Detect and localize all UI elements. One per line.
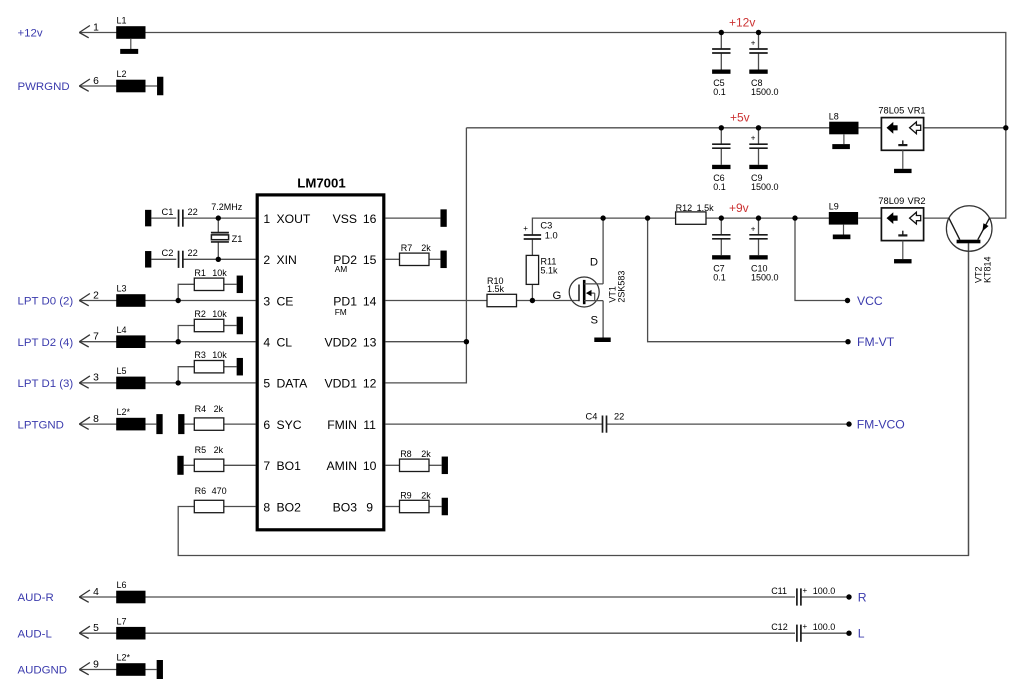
node C7 junction — [719, 215, 724, 220]
wire R7 to bar — [429, 258, 440, 260]
pin number 6 SYC — [263, 418, 270, 432]
capacitor C6 0.1 — [712, 144, 730, 192]
ground bar C5 — [712, 70, 730, 74]
svg-text:DATA: DATA — [277, 377, 309, 391]
ground bar AUDGND — [157, 660, 163, 679]
wire AUDGND — [79, 669, 156, 671]
pin number 10 — [363, 459, 377, 473]
node junction R3 — [176, 380, 181, 385]
svg-text:AUD-R: AUD-R — [18, 592, 54, 604]
svg-text:S: S — [591, 315, 599, 327]
svg-text:R8: R8 — [400, 449, 412, 459]
inductor L1 — [116, 16, 145, 39]
svg-text:78L05: 78L05 — [878, 106, 904, 116]
svg-text:10k: 10k — [212, 350, 227, 360]
resistor R11 5.1k — [526, 255, 558, 284]
svg-text:VCC: VCC — [857, 294, 883, 308]
connector arrow LPT D2 (4) — [79, 335, 90, 347]
svg-text:78L09: 78L09 — [878, 196, 904, 206]
svg-text:C2: C2 — [162, 248, 174, 258]
pin name SYC — [277, 418, 302, 432]
capacitor C2 — [162, 248, 198, 268]
svg-text:AM: AM — [335, 264, 348, 274]
resistor R2 — [194, 309, 227, 332]
pin number 16 — [363, 212, 377, 226]
wire LPTGND lead — [79, 423, 156, 425]
pin name XOUT — [277, 212, 311, 226]
svg-text:7.2MHz: 7.2MHz — [211, 202, 243, 212]
crystal Z1 — [211, 233, 243, 245]
svg-text:VR2: VR2 — [908, 196, 926, 206]
node +12v connector label — [18, 28, 43, 40]
resistor R6 470 — [194, 486, 226, 513]
svg-text:LPTGND: LPTGND — [18, 419, 64, 431]
svg-text:6: 6 — [93, 76, 99, 87]
wire bar to R4 — [184, 423, 194, 425]
svg-text:VDD2: VDD2 — [324, 336, 357, 350]
pin name BO2 — [277, 500, 302, 514]
wire R2 pullup — [178, 326, 194, 342]
pin number 8 for LPTGND — [93, 414, 99, 425]
wire +5v rail — [466, 127, 881, 129]
resistor R1 — [194, 268, 227, 291]
wire drain — [602, 218, 604, 284]
node VDD junction — [464, 339, 469, 344]
pin name VDD2 — [324, 336, 357, 350]
svg-text:L7: L7 — [117, 616, 127, 626]
svg-text:LPT D1 (3): LPT D1 (3) — [18, 378, 74, 390]
svg-text:VR1: VR1 — [908, 106, 926, 116]
op-amp U1 LM7001 box — [257, 176, 384, 530]
pin number 4 for AUD-R — [93, 587, 99, 598]
svg-text:FM: FM — [335, 307, 347, 317]
label FM-VT — [857, 335, 895, 349]
capacitor C10 1500.0 — [749, 224, 778, 282]
svg-text:R12: R12 — [676, 203, 693, 213]
pin name VDD1 — [324, 377, 357, 391]
svg-text:R5: R5 — [195, 445, 207, 455]
ground bar C9 — [749, 165, 767, 169]
pin number 9 for AUDGND — [93, 659, 99, 670]
wire VR1 out — [924, 127, 1006, 129]
capacitor C4 22 — [586, 411, 625, 432]
pin number 3 CE — [263, 294, 270, 308]
svg-text:+: + — [523, 224, 528, 233]
wire FM-VT branch — [648, 218, 848, 342]
wire VR2 to VT2 — [924, 217, 949, 219]
inductor L2* — [116, 407, 145, 430]
wire C11 to R — [801, 596, 849, 598]
svg-text:2k: 2k — [421, 490, 431, 500]
svg-text:10: 10 — [363, 459, 377, 473]
svg-text:+: + — [803, 586, 808, 595]
pin name BO3 — [333, 500, 358, 514]
pin number 3 for LPT D1 (3) — [93, 373, 99, 384]
transistor VT2 KT814 — [946, 206, 992, 283]
connector arrow LPTGND — [79, 417, 90, 429]
svg-text:22: 22 — [188, 207, 198, 217]
svg-text:22: 22 — [614, 411, 624, 421]
capacitor C11 100.0 — [771, 586, 835, 606]
svg-text:6: 6 — [263, 418, 270, 432]
svg-text:3: 3 — [263, 294, 270, 308]
node C8 junction — [756, 30, 761, 35]
node LPT D0 (2) connector label — [18, 296, 74, 308]
node AUD-R connector label — [18, 592, 54, 604]
svg-text:+: + — [751, 224, 756, 233]
connector arrow AUDGND — [79, 663, 90, 675]
svg-text:11: 11 — [363, 418, 376, 432]
resistor R12 1.5k — [676, 203, 715, 224]
ground bar LPTGND a — [156, 414, 162, 434]
svg-text:9: 9 — [366, 500, 373, 514]
ground bar C10 — [749, 255, 767, 259]
wire VSS — [386, 217, 441, 219]
node C5 junction — [719, 30, 724, 35]
svg-text:0.1: 0.1 — [713, 87, 726, 97]
svg-text:5.1k: 5.1k — [541, 266, 559, 276]
svg-text:G: G — [553, 290, 562, 302]
inductor L5 — [116, 366, 145, 389]
svg-text:L: L — [858, 627, 865, 641]
connector arrow LPT D1 (3) — [79, 376, 90, 388]
svg-text:AUD-L: AUD-L — [18, 628, 52, 640]
ground bar R3 — [237, 358, 243, 376]
ground bar VSS — [440, 209, 446, 227]
svg-text:+12v: +12v — [729, 15, 755, 29]
svg-text:1.0: 1.0 — [545, 230, 558, 240]
pin number 7 BO1 — [263, 459, 270, 473]
pin number 2 for LPT D0 (2) — [93, 290, 99, 301]
svg-text:CE: CE — [277, 294, 294, 308]
wire VT2 base — [968, 243, 970, 555]
L8 ground pad — [832, 134, 850, 149]
svg-text:22: 22 — [188, 248, 198, 258]
svg-text:C4: C4 — [586, 411, 598, 421]
wire R6 to pin8 — [224, 506, 256, 508]
label FM — [335, 307, 347, 317]
node LPTGND connector label — [18, 419, 64, 431]
ground bar R5 — [177, 456, 183, 475]
wire FMIN to C4 — [386, 423, 603, 425]
svg-text:+9v: +9v — [729, 201, 749, 215]
ground bar R1 — [237, 276, 243, 294]
node VCC — [845, 298, 850, 303]
resistor R8 2k — [400, 449, 432, 471]
svg-text:5: 5 — [263, 377, 270, 391]
pin name PD1 — [333, 294, 357, 308]
pin number 5 for AUD-L — [93, 623, 99, 634]
capacitor C3 1.0 — [523, 220, 557, 240]
svg-text:14: 14 — [363, 294, 377, 308]
svg-text:C11: C11 — [771, 586, 787, 596]
svg-text:8: 8 — [263, 500, 270, 514]
pin number 15 — [363, 253, 377, 267]
pin name BO1 — [277, 459, 302, 473]
svg-text:L1: L1 — [117, 16, 127, 26]
svg-text:+: + — [803, 622, 808, 631]
connector arrow AUD-L — [79, 626, 90, 638]
ground bar C7 — [712, 255, 730, 259]
capacitor C9 1500.0 — [749, 134, 778, 193]
label +12v rail — [729, 15, 755, 29]
svg-text:5: 5 — [93, 623, 99, 634]
wire R3 to bar — [224, 366, 237, 368]
label +5v — [730, 111, 750, 125]
svg-text:L2: L2 — [117, 69, 127, 79]
svg-text:7: 7 — [93, 332, 99, 343]
wire C5 — [720, 33, 722, 50]
node FM-VT junction — [645, 215, 650, 220]
wire C12 to L — [801, 632, 849, 634]
node AUDGND connector label — [18, 665, 68, 677]
label D — [590, 257, 598, 269]
svg-text:VDD1: VDD1 — [324, 377, 357, 391]
inductor L7 — [116, 616, 145, 639]
svg-text:R: R — [858, 590, 867, 604]
svg-text:+: + — [751, 134, 756, 143]
node R — [846, 594, 851, 599]
svg-text:2k: 2k — [421, 449, 431, 459]
inductor L4 — [116, 325, 145, 348]
connector arrow PWRGND — [79, 79, 90, 91]
connector arrow +12v — [79, 26, 90, 38]
node FM-VCO — [846, 421, 851, 426]
pin number 14 — [363, 294, 377, 308]
svg-text:0.1: 0.1 — [713, 273, 726, 283]
ground bar C1 — [145, 210, 151, 227]
wire BO2 return — [178, 243, 968, 555]
wire C3 to rail — [532, 218, 647, 235]
inductor L8 — [829, 111, 859, 134]
svg-text:2SK583: 2SK583 — [616, 271, 626, 303]
svg-text:1.5k: 1.5k — [697, 203, 715, 213]
svg-text:LM7001: LM7001 — [297, 176, 345, 191]
node junction R1 — [176, 298, 181, 303]
svg-text:2k: 2k — [214, 404, 224, 414]
ground VT1 source — [594, 338, 610, 343]
wire C8 gnd — [758, 53, 760, 70]
wire C5 gnd — [720, 53, 722, 70]
pin number 7 for LPT D2 (4) — [93, 332, 99, 343]
wire R5 to pin7 — [224, 464, 256, 466]
svg-text:L2*: L2* — [117, 653, 131, 663]
node L — [846, 631, 851, 636]
svg-text:16: 16 — [363, 212, 377, 226]
ground bar R7 — [440, 251, 446, 268]
wire VDD1 — [386, 128, 467, 383]
transistor VT1 2SK583 — [569, 271, 626, 307]
svg-text:470: 470 — [212, 486, 227, 496]
label R — [858, 590, 867, 604]
svg-text:CL: CL — [277, 336, 293, 350]
svg-text:BO3: BO3 — [333, 500, 358, 514]
node XIN junction — [216, 257, 221, 262]
wire C1 to pin1 — [183, 217, 256, 219]
svg-text:L2*: L2* — [117, 407, 131, 417]
node LPT D1 (3) connector label — [18, 378, 74, 390]
wire +12v rail — [79, 33, 1006, 219]
wire C9 — [758, 128, 760, 145]
svg-text:2k: 2k — [421, 243, 431, 253]
pin number 2 XIN — [263, 253, 270, 267]
inductor L2* — [116, 653, 145, 676]
svg-text:L8: L8 — [829, 111, 839, 121]
inductor L6 — [116, 580, 145, 603]
svg-text:C1: C1 — [162, 207, 174, 217]
wire R1 to bar — [224, 283, 237, 285]
pin number 4 CL — [263, 336, 270, 350]
svg-text:L3: L3 — [117, 284, 127, 294]
label 7.2MHz — [211, 202, 243, 212]
svg-text:4: 4 — [263, 336, 270, 350]
resistor R9 2k — [400, 490, 432, 512]
wire crystal top — [217, 218, 219, 232]
svg-text:2: 2 — [263, 253, 270, 267]
wire C2 left — [151, 258, 176, 260]
pin number 6 for PWRGND — [93, 76, 99, 87]
svg-text:15: 15 — [363, 253, 377, 267]
wire C6 — [720, 128, 722, 145]
wire R11 to C3 — [531, 239, 533, 255]
wire R9 to bar — [429, 506, 442, 508]
capacitor C1 — [162, 207, 198, 227]
wire PWRGND — [79, 85, 157, 87]
ground bar R2 — [237, 317, 243, 335]
svg-text:KT814: KT814 — [983, 256, 993, 283]
wire R4 to pin6 — [224, 423, 256, 425]
wire C2 to pin2 — [183, 258, 256, 260]
svg-text:D: D — [590, 257, 598, 269]
svg-text:BO1: BO1 — [277, 459, 302, 473]
pin number 11 — [363, 418, 376, 432]
wire C7 — [720, 218, 722, 235]
svg-text:BO2: BO2 — [277, 500, 302, 514]
svg-text:1: 1 — [263, 212, 270, 226]
ground bar R9 — [442, 498, 448, 516]
wire VDD2 — [386, 341, 467, 343]
svg-text:SYC: SYC — [277, 418, 302, 432]
svg-text:R7: R7 — [401, 243, 413, 253]
wire R2 to bar — [224, 325, 237, 327]
svg-text:AUDGND: AUDGND — [18, 665, 68, 677]
svg-text:8: 8 — [93, 414, 99, 425]
pin name XIN — [277, 253, 297, 267]
pin name PD2 — [333, 253, 357, 267]
node FM-VT — [845, 339, 850, 344]
node junction R2 — [176, 339, 181, 344]
svg-text:10k: 10k — [212, 309, 227, 319]
wire C1 left — [151, 217, 176, 219]
svg-text:R2: R2 — [194, 309, 206, 319]
wire C6 gnd — [720, 148, 722, 165]
pin name FMIN — [327, 418, 357, 432]
svg-text:LPT D0 (2): LPT D0 (2) — [18, 296, 74, 308]
node +12v/VR1 junction — [1003, 125, 1008, 130]
node XOUT junction — [216, 215, 221, 220]
pin name AMIN — [327, 459, 357, 473]
svg-text:FMIN: FMIN — [327, 418, 357, 432]
wire BO3 to R9 — [386, 506, 400, 508]
pin number 9 — [366, 500, 373, 514]
svg-text:4: 4 — [93, 587, 99, 598]
pin name VSS — [333, 212, 357, 226]
voltage regulator VR1 78L05 — [878, 106, 925, 174]
label FM-VCO — [857, 417, 905, 431]
wire C10 — [758, 218, 760, 235]
resistor R10 1.5k — [487, 276, 517, 307]
wire rail to R12 — [648, 217, 676, 219]
pin name CE — [277, 294, 294, 308]
L1 ground pad — [120, 39, 138, 54]
wire PD1 to R10 — [386, 300, 488, 302]
pin number 8 BO2 — [263, 500, 270, 514]
svg-text:10k: 10k — [212, 268, 227, 278]
svg-text:PWRGND: PWRGND — [18, 81, 70, 93]
pin number 13 — [363, 336, 377, 350]
wire R12 to L9 — [706, 217, 829, 219]
connector arrow LPT D0 (2) — [79, 294, 90, 306]
wire C7 gnd — [720, 239, 722, 255]
wire AUD-L — [79, 632, 795, 634]
ground bar R8 — [442, 457, 448, 475]
pin number 5 DATA — [263, 377, 270, 391]
svg-text:3: 3 — [93, 373, 99, 384]
L9 ground pad — [833, 225, 851, 240]
voltage regulator VR2 78L09 — [878, 196, 925, 264]
svg-text:1500.0: 1500.0 — [751, 87, 779, 97]
svg-text:13: 13 — [363, 336, 377, 350]
capacitor C12 100.0 — [771, 622, 835, 642]
wire R3 row — [79, 382, 255, 384]
svg-text:R3: R3 — [194, 350, 206, 360]
svg-text:L4: L4 — [117, 325, 127, 335]
svg-text:R6: R6 — [195, 486, 207, 496]
svg-text:Z1: Z1 — [232, 234, 243, 244]
wire bar to R5 — [184, 464, 195, 466]
node AUD-L connector label — [18, 628, 52, 640]
svg-text:VSS: VSS — [333, 212, 357, 226]
svg-text:R4: R4 — [195, 404, 207, 414]
label +9v — [729, 201, 749, 215]
svg-text:100.0: 100.0 — [813, 586, 836, 596]
pin name DATA — [277, 377, 309, 391]
svg-text:XOUT: XOUT — [277, 212, 311, 226]
wire VCC branch — [795, 218, 848, 300]
svg-text:+: + — [751, 38, 756, 47]
svg-text:2k: 2k — [214, 445, 224, 455]
ground bar C6 — [712, 165, 730, 169]
resistor R7 2k — [400, 243, 432, 265]
svg-text:LPT D2 (4): LPT D2 (4) — [18, 337, 74, 349]
resistor R3 — [194, 350, 227, 373]
node gate junction — [530, 298, 535, 303]
node LPT D2 (4) connector label — [18, 337, 74, 349]
node C10 junction — [756, 215, 761, 220]
wire AUD-R — [79, 596, 795, 598]
pin number 1 XOUT — [263, 212, 270, 226]
ground bar C8 — [749, 70, 767, 74]
wire R11 up — [531, 284, 533, 300]
svg-text:L9: L9 — [829, 202, 839, 212]
svg-text:C12: C12 — [771, 622, 788, 632]
wire L9 to VR2 — [858, 217, 881, 219]
label S — [591, 315, 599, 327]
node PWRGND connector label — [18, 81, 70, 93]
wire AMIN to R8 — [386, 464, 400, 466]
wire source — [602, 301, 604, 338]
svg-text:FM-VT: FM-VT — [857, 335, 895, 349]
